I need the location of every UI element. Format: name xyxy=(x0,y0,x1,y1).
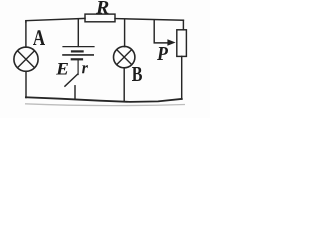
switch contact stub wire xyxy=(74,86,76,99)
lamp A cross xyxy=(18,51,35,68)
battery plate long 2 xyxy=(63,54,93,56)
wire bottom rail xyxy=(26,97,182,102)
lamp B circle xyxy=(114,46,135,67)
wire lamp B bottom xyxy=(123,68,125,102)
wire top rail right xyxy=(115,19,183,21)
wire battery bottom xyxy=(77,59,79,74)
label B xyxy=(132,67,142,81)
switch blade xyxy=(65,74,78,86)
battery plate short 1 xyxy=(72,50,83,52)
wire right edge upper xyxy=(182,20,184,30)
wire right edge lower (rheostat to bottom rail) xyxy=(181,56,183,99)
wire top rail left xyxy=(26,18,85,22)
lamp B cross xyxy=(117,50,132,65)
battery plate short 2 xyxy=(72,58,82,60)
label r xyxy=(82,65,88,73)
label E xyxy=(56,63,68,75)
battery plate long 1 xyxy=(63,46,94,48)
slider arrowhead xyxy=(167,39,175,45)
wire lamp B top xyxy=(124,20,126,47)
label P xyxy=(157,47,168,60)
resistor R box xyxy=(85,14,115,22)
lamp A circle xyxy=(14,47,38,71)
wire slider branch xyxy=(154,20,168,43)
label A xyxy=(33,30,45,45)
label R xyxy=(96,1,108,13)
rheostat P box xyxy=(177,30,187,57)
wire battery top xyxy=(77,20,79,47)
wire left edge upper (to lamp A) xyxy=(25,21,27,48)
wire left edge lower xyxy=(25,71,27,97)
